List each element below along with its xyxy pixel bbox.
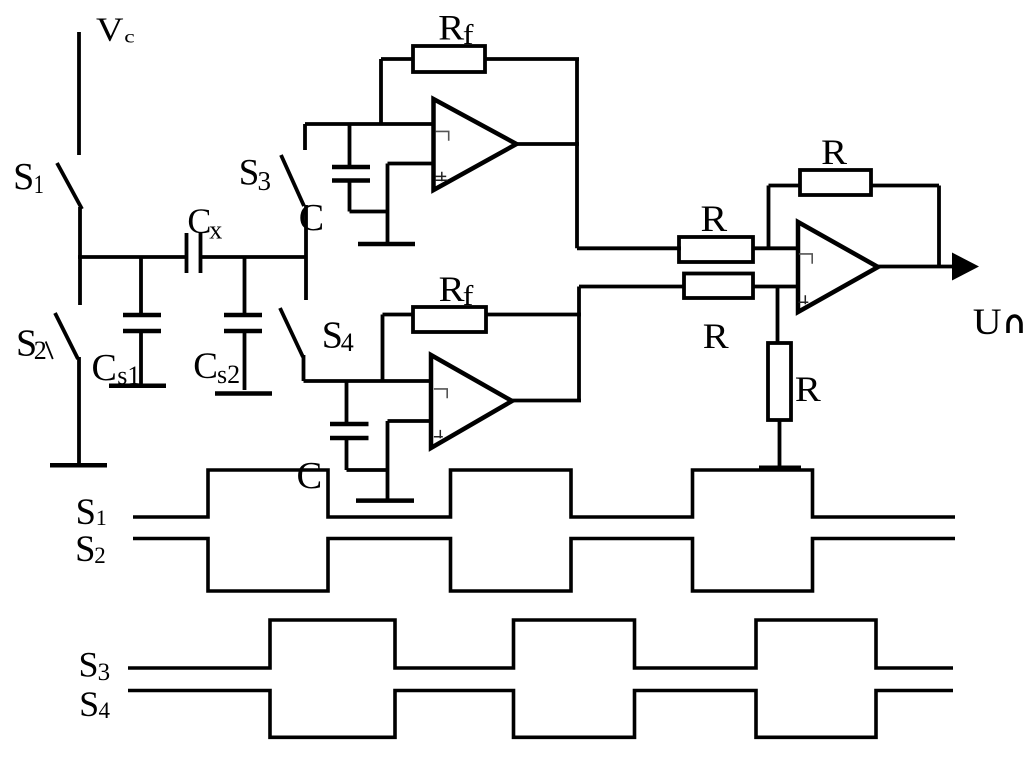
svg-text:R: R <box>821 133 847 172</box>
svg-text:C: C <box>297 455 323 497</box>
svg-text:c: c <box>124 26 134 47</box>
svg-text:f: f <box>463 280 475 312</box>
svg-text:f: f <box>463 19 475 51</box>
svg-text:S: S <box>79 645 99 685</box>
svg-text:U: U <box>973 302 1002 342</box>
svg-text:R: R <box>703 317 729 356</box>
svg-text:S: S <box>75 528 95 569</box>
svg-text:C: C <box>193 346 218 387</box>
svg-text:V: V <box>96 10 123 48</box>
svg-text:1: 1 <box>34 171 44 200</box>
svg-text:S: S <box>79 684 99 724</box>
svg-text:R: R <box>439 270 465 309</box>
svg-text:R: R <box>795 370 821 409</box>
svg-text:4: 4 <box>341 328 354 357</box>
svg-text:3: 3 <box>258 166 272 196</box>
svg-text:x: x <box>209 215 222 244</box>
svg-text:3: 3 <box>98 659 111 686</box>
svg-text:R: R <box>438 9 464 48</box>
svg-text:S: S <box>76 491 96 532</box>
svg-text:2: 2 <box>94 543 106 568</box>
svg-text:S: S <box>239 152 260 193</box>
svg-text:s1: s1 <box>117 361 140 390</box>
svg-text:R: R <box>701 199 728 239</box>
svg-text:S: S <box>13 156 34 198</box>
svg-text:C: C <box>92 347 117 389</box>
svg-text:1: 1 <box>96 505 107 530</box>
svg-text:4: 4 <box>99 698 111 723</box>
svg-text:C: C <box>187 201 211 241</box>
svg-text:C: C <box>299 197 324 239</box>
svg-text:s2: s2 <box>217 360 240 389</box>
svg-text:2: 2 <box>34 336 47 365</box>
